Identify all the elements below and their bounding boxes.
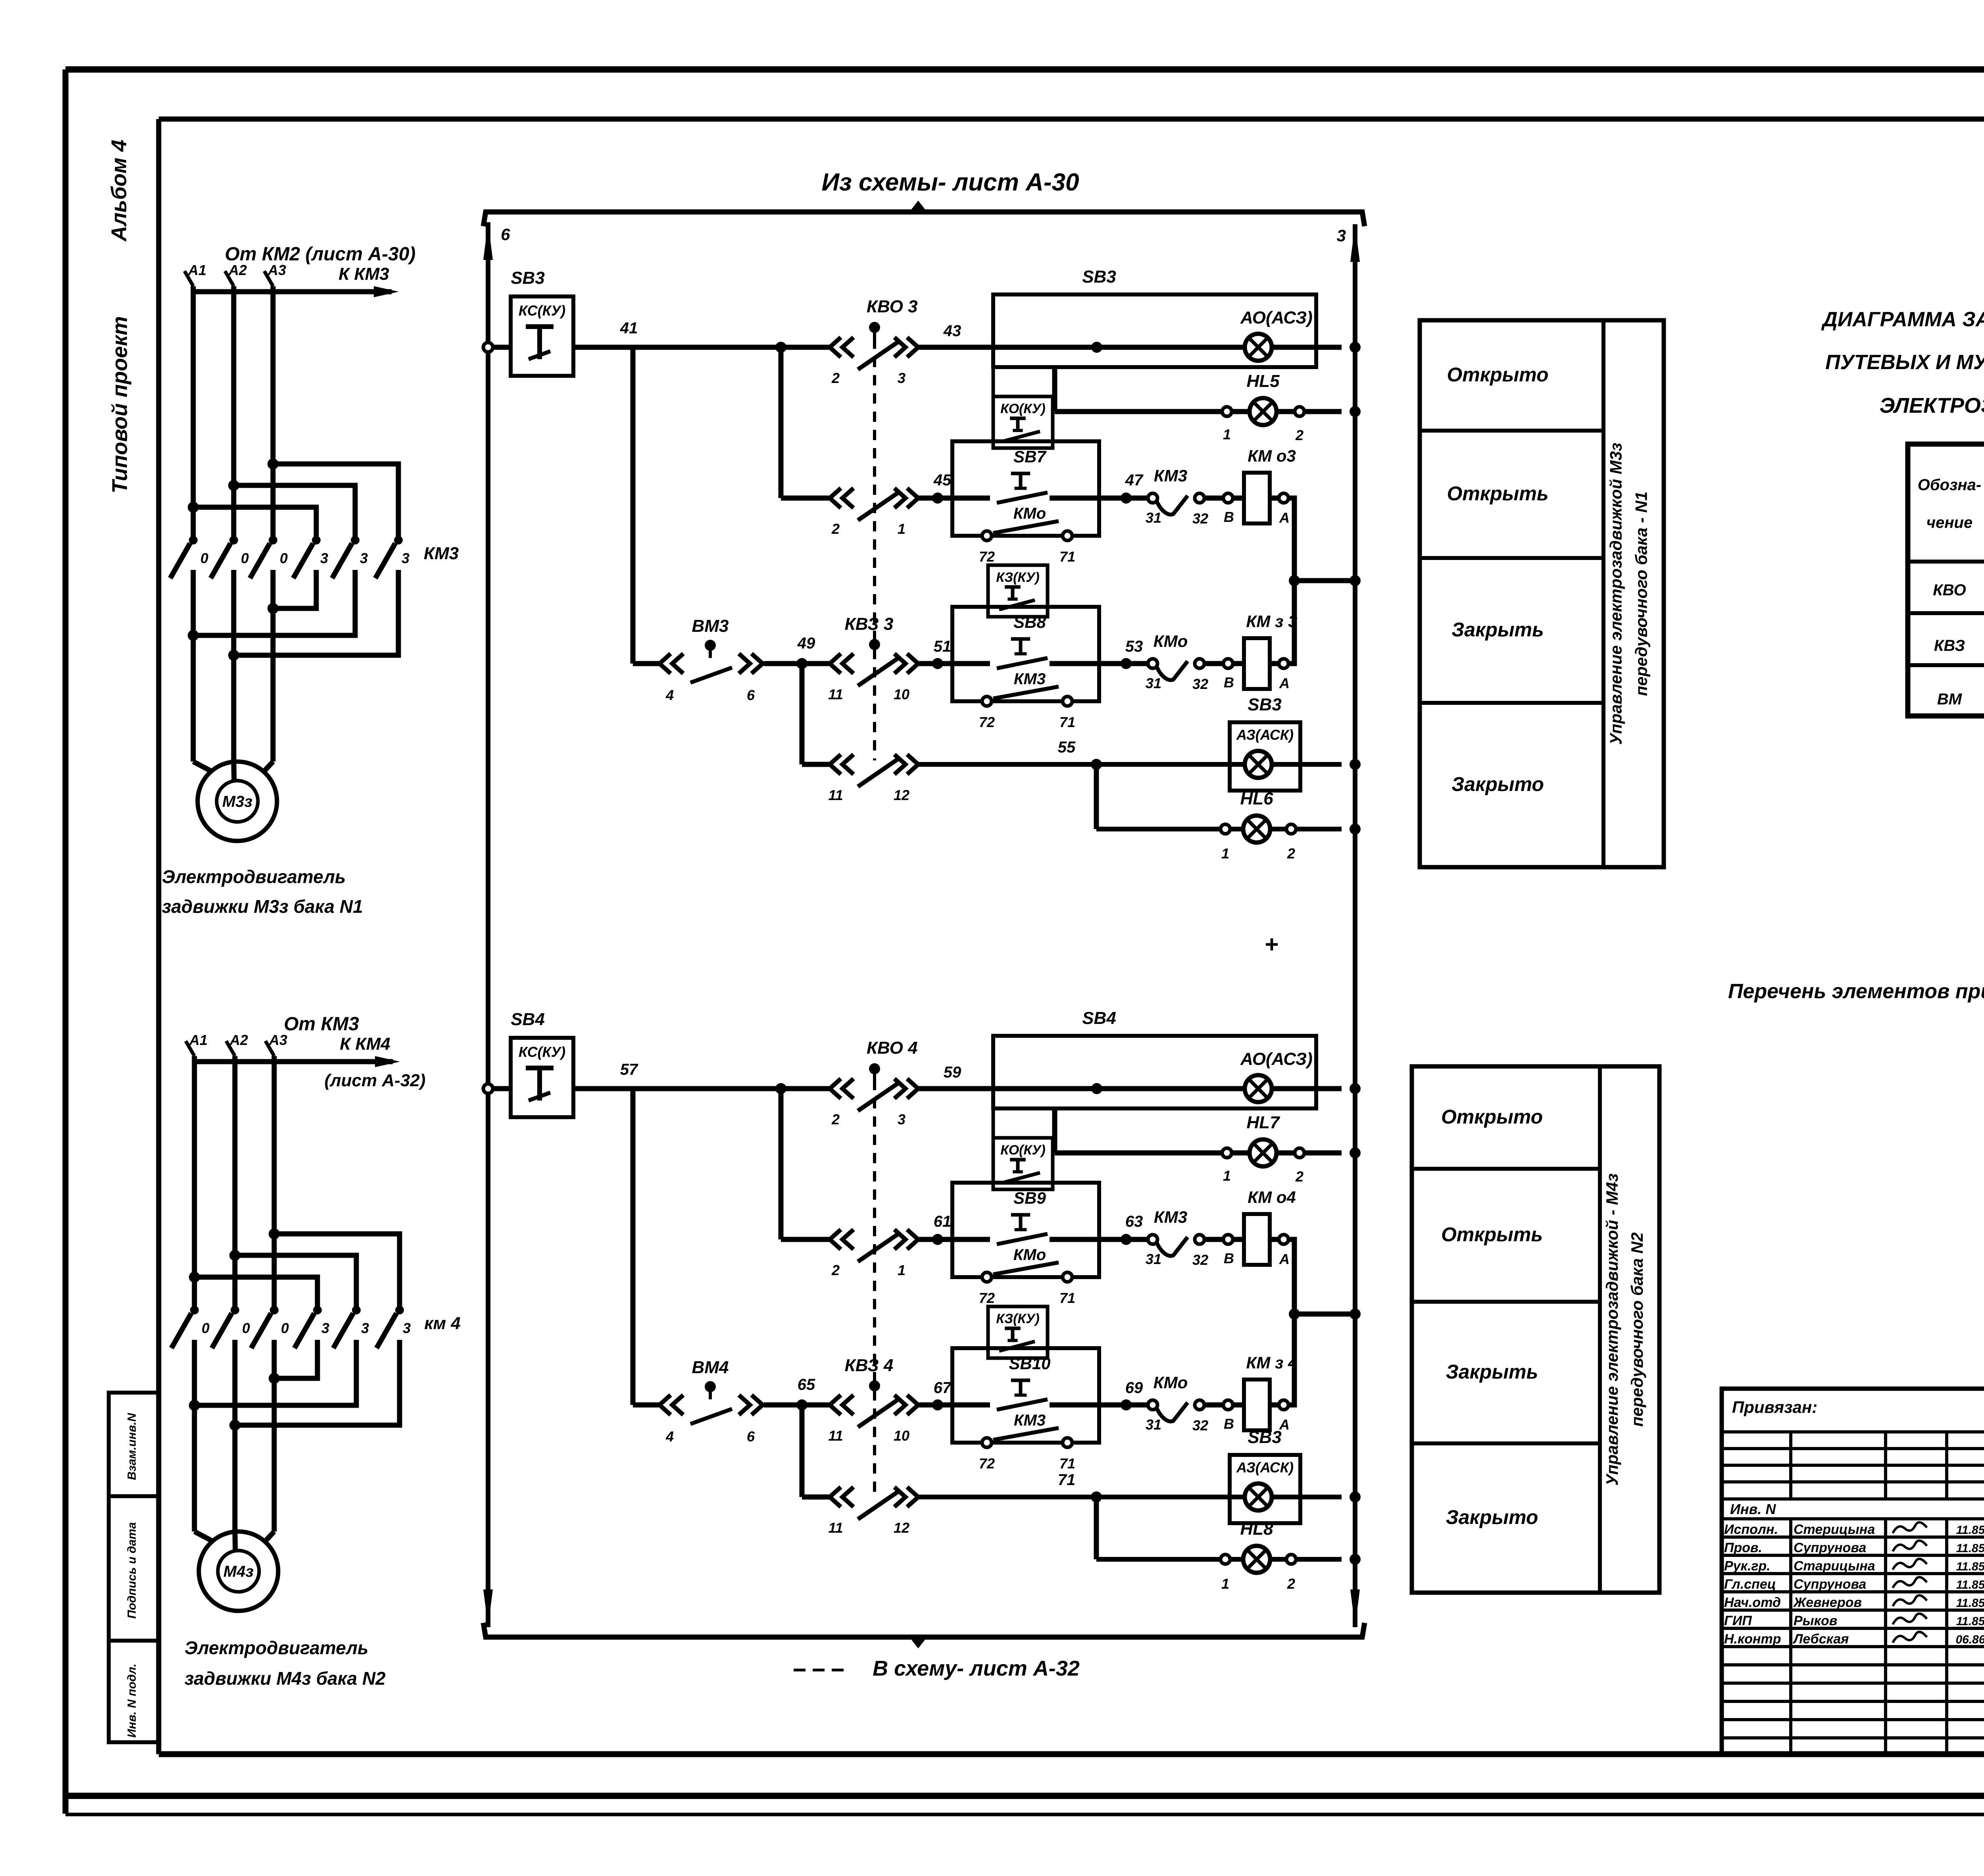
svg-text:Пров.: Пров. (1724, 1540, 1762, 1555)
svg-text:ВМ: ВМ (1937, 691, 1963, 708)
svg-text:31: 31 (1146, 510, 1161, 526)
svg-text:Открыть: Открыть (1441, 1224, 1543, 1246)
svg-text:А: А (1279, 1251, 1290, 1267)
svg-text:Закрыто: Закрыто (1451, 773, 1544, 795)
svg-text:А1: А1 (189, 1032, 208, 1048)
svg-text:11.85: 11.85 (1956, 1542, 1984, 1555)
svg-text:72: 72 (979, 714, 995, 730)
svg-text:Супрунова: Супрунова (1794, 1540, 1866, 1555)
svg-text:КМ3: КМ3 (1014, 670, 1046, 688)
svg-text:06.86: 06.86 (1955, 1633, 1984, 1646)
svg-text:2: 2 (1295, 1168, 1303, 1185)
svg-text:КО(КУ): КО(КУ) (1000, 401, 1045, 416)
svg-text:32: 32 (1192, 510, 1208, 527)
svg-text:АО(АСЗ): АО(АСЗ) (1240, 308, 1313, 327)
svg-text:Гл.спец: Гл.спец (1724, 1577, 1776, 1592)
svg-text:Альбом 4: Альбом 4 (107, 140, 131, 242)
svg-text:КВО 3: КВО 3 (867, 297, 918, 316)
svg-text:ПУТЕВЫХ И МУФТОВЫХ ВЫКЛЮЧАТ: ПУТЕВЫХ И МУФТОВЫХ ВЫКЛЮЧАТЕЛЕЙ (1825, 350, 1984, 374)
svg-text:КС(КУ): КС(КУ) (519, 302, 565, 319)
svg-text:32: 32 (1192, 676, 1208, 692)
svg-text:32: 32 (1192, 1252, 1208, 1268)
svg-text:Взам.инв.N: Взам.инв.N (125, 1412, 138, 1480)
svg-text:49: 49 (797, 635, 815, 652)
svg-text:Подпись и дата: Подпись и дата (125, 1522, 138, 1618)
svg-text:ГИП: ГИП (1724, 1613, 1752, 1628)
svg-text:Управление электрозадвижкой -: Управление электрозадвижкой - М4з (1603, 1174, 1621, 1486)
svg-text:4: 4 (665, 687, 674, 703)
svg-text:11.85: 11.85 (1956, 1524, 1984, 1537)
svg-text:61: 61 (934, 1213, 952, 1230)
svg-text:2: 2 (831, 1262, 840, 1278)
svg-text:Стерицына: Стерицына (1794, 1522, 1875, 1537)
svg-text:КМ3: КМ3 (1154, 1208, 1187, 1226)
svg-text:11: 11 (828, 1428, 843, 1444)
svg-text:Типовой проект: Типовой проект (108, 316, 132, 494)
svg-text:SB9: SB9 (1013, 1189, 1046, 1207)
svg-text:передувочного бака - N1: передувочного бака - N1 (1632, 491, 1650, 696)
svg-text:11: 11 (828, 787, 843, 803)
svg-text:КВЗ 4: КВЗ 4 (845, 1356, 894, 1375)
svg-text:Открыть: Открыть (1447, 483, 1548, 505)
svg-text:КМо: КМо (1153, 632, 1188, 650)
svg-text:65: 65 (798, 1376, 815, 1393)
svg-text:72: 72 (979, 1455, 995, 1472)
svg-text:53: 53 (1125, 638, 1143, 655)
svg-text:12: 12 (894, 1520, 909, 1536)
svg-text:К КМ4: К КМ4 (340, 1034, 390, 1054)
svg-text:3: 3 (1337, 226, 1346, 245)
svg-text:А1: А1 (188, 262, 206, 278)
svg-text:71: 71 (1059, 714, 1075, 730)
svg-text:Исполн.: Исполн. (1724, 1522, 1778, 1537)
svg-text:72: 72 (979, 1290, 995, 1306)
svg-text:43: 43 (943, 322, 961, 340)
svg-text:11: 11 (828, 686, 843, 702)
svg-text:69: 69 (1125, 1379, 1143, 1397)
svg-text:SB4: SB4 (1082, 1008, 1116, 1028)
svg-text:КМ з 3: КМ з 3 (1246, 612, 1298, 631)
svg-text:1: 1 (1223, 1168, 1231, 1184)
svg-text:71: 71 (1058, 1471, 1076, 1489)
svg-text:КМ з 4: КМ з 4 (1246, 1353, 1298, 1372)
svg-text:31: 31 (1146, 1251, 1161, 1267)
svg-text:км 4: км 4 (424, 1314, 461, 1333)
svg-text:31: 31 (1146, 1416, 1161, 1433)
svg-text:2: 2 (831, 521, 840, 537)
svg-text:SB3: SB3 (511, 268, 545, 288)
svg-text:КМо: КМо (1013, 1246, 1046, 1264)
svg-text:11: 11 (828, 1520, 843, 1536)
svg-text:SB7: SB7 (1013, 447, 1046, 466)
svg-text:SB3: SB3 (1082, 267, 1116, 287)
svg-text:КМ о4: КМ о4 (1248, 1188, 1296, 1206)
svg-text:КМ о3: КМ о3 (1248, 446, 1296, 465)
svg-text:11.85: 11.85 (1956, 1597, 1984, 1610)
svg-text:1: 1 (1221, 845, 1229, 862)
svg-text:КМ3: КМ3 (1154, 466, 1187, 485)
svg-text:63: 63 (1125, 1213, 1143, 1230)
svg-text:КО(КУ): КО(КУ) (1000, 1143, 1045, 1158)
svg-text:1: 1 (1221, 1576, 1229, 1592)
svg-text:АЗ(АСК): АЗ(АСК) (1236, 727, 1294, 743)
svg-text:КВЗ: КВЗ (1934, 637, 1965, 654)
svg-text:М3з: М3з (222, 793, 252, 810)
svg-text:HL8: HL8 (1240, 1519, 1273, 1539)
svg-text:1: 1 (1223, 426, 1231, 443)
svg-text:АЗ(АСК): АЗ(АСК) (1236, 1459, 1294, 1476)
svg-text:11.85: 11.85 (1956, 1560, 1984, 1573)
svg-text:Нач.отд: Нач.отд (1724, 1595, 1781, 1610)
svg-text:КМ3: КМ3 (1014, 1412, 1046, 1429)
svg-text:11.85: 11.85 (1956, 1578, 1984, 1591)
svg-text:В схему- лист А-32: В схему- лист А-32 (873, 1657, 1080, 1680)
svg-text:2: 2 (1295, 427, 1303, 443)
svg-text:2: 2 (831, 1111, 840, 1128)
svg-text:КМ3: КМ3 (424, 544, 459, 563)
svg-text:Рук.гр.: Рук.гр. (1724, 1559, 1771, 1574)
svg-text:11.85: 11.85 (1956, 1615, 1984, 1628)
svg-text:SB4: SB4 (511, 1010, 545, 1029)
svg-text:3: 3 (898, 370, 905, 386)
svg-text:А2: А2 (229, 1032, 248, 1048)
svg-text:задвижки М4з бака N2: задвижки М4з бака N2 (185, 1668, 386, 1689)
svg-text:47: 47 (1125, 471, 1144, 489)
svg-text:Закрыть: Закрыть (1451, 619, 1544, 641)
svg-text:67: 67 (934, 1379, 952, 1397)
svg-text:Открыто: Открыто (1447, 364, 1548, 386)
svg-text:Инв. N подл.: Инв. N подл. (125, 1664, 138, 1738)
svg-text:задвижки М3з бака N1: задвижки М3з бака N1 (162, 896, 363, 917)
svg-text:SB3: SB3 (1248, 1428, 1282, 1447)
svg-text:КВЗ 3: КВЗ 3 (845, 614, 894, 634)
svg-text:6: 6 (747, 1428, 755, 1445)
svg-text:2: 2 (1287, 1576, 1295, 1592)
svg-text:(лист А-32): (лист А-32) (325, 1071, 426, 1090)
svg-text:12: 12 (894, 787, 909, 803)
svg-text:ВМ3: ВМ3 (692, 616, 729, 636)
svg-text:71: 71 (1059, 1290, 1075, 1306)
svg-text:2: 2 (831, 370, 840, 386)
svg-text:6: 6 (501, 225, 510, 244)
svg-text:Супрунова: Супрунова (1794, 1577, 1866, 1592)
svg-text:КЗ(КУ): КЗ(КУ) (996, 570, 1039, 585)
svg-text:72: 72 (979, 548, 995, 565)
svg-text:КЗ(КУ): КЗ(КУ) (996, 1311, 1039, 1326)
svg-text:Н.контр: Н.контр (1724, 1632, 1781, 1647)
svg-text:Управление электрозадвижкой М: Управление электрозадвижкой М3з (1607, 443, 1625, 745)
svg-text:А: А (1279, 510, 1290, 526)
svg-text:В: В (1224, 674, 1234, 691)
svg-text:2: 2 (1287, 845, 1295, 862)
svg-text:1: 1 (898, 521, 905, 537)
svg-text:41: 41 (620, 319, 638, 337)
svg-text:Перечень элементов принципиа: Перечень элементов принципиальной схемы … (1728, 980, 1984, 1003)
svg-text:55: 55 (1058, 739, 1076, 756)
svg-text:ЭЛЕКТРОЗАДВИЖЕК М1з ÷ М6з: ЭЛЕКТРОЗАДВИЖЕК М1з ÷ М6з (1879, 394, 1984, 418)
svg-text:АО(АСЗ): АО(АСЗ) (1240, 1049, 1313, 1069)
svg-text:SB3: SB3 (1248, 695, 1282, 714)
svg-text:В: В (1224, 1250, 1234, 1266)
svg-text:КМо: КМо (1153, 1373, 1188, 1392)
svg-text:КС(КУ): КС(КУ) (519, 1044, 565, 1060)
svg-text:Закрыть: Закрыть (1446, 1361, 1538, 1383)
svg-text:32: 32 (1192, 1417, 1208, 1433)
svg-text:От КМ3: От КМ3 (284, 1014, 359, 1035)
svg-text:Обозна-: Обозна- (1918, 476, 1981, 494)
svg-text:4: 4 (665, 1428, 674, 1445)
svg-text:71: 71 (1059, 1455, 1075, 1472)
svg-text:От КМ2 (лист А-30): От КМ2 (лист А-30) (225, 244, 416, 265)
svg-text:Инв. N: Инв. N (1730, 1501, 1776, 1517)
svg-text:Старицына: Старицына (1794, 1559, 1875, 1574)
svg-text:51: 51 (934, 638, 952, 655)
svg-text:КВО: КВО (1933, 581, 1966, 599)
svg-text:Рыков: Рыков (1794, 1613, 1837, 1628)
svg-text:Привязан:: Привязан: (1732, 1398, 1817, 1416)
svg-text:В: В (1224, 509, 1234, 525)
svg-text:6: 6 (747, 687, 755, 703)
svg-text:ДИАГРАММА ЗАМЫКАНИЯ КОНТАКТО: ДИАГРАММА ЗАМЫКАНИЯ КОНТАКТОВ (1821, 308, 1984, 331)
svg-text:Открыто: Открыто (1441, 1106, 1543, 1128)
svg-text:45: 45 (933, 471, 952, 489)
svg-text:КВО 4: КВО 4 (867, 1038, 918, 1058)
svg-text:Лебская: Лебская (1792, 1632, 1849, 1647)
svg-text:КМо: КМо (1013, 505, 1046, 522)
svg-text:чение: чение (1926, 514, 1972, 531)
svg-text:71: 71 (1059, 548, 1075, 565)
svg-text:К КМ3: К КМ3 (338, 264, 389, 284)
svg-text:HL5: HL5 (1246, 371, 1280, 391)
svg-text:Электродвигатель: Электродвигатель (162, 866, 346, 887)
svg-text:ВМ4: ВМ4 (692, 1358, 729, 1377)
svg-text:Электродвигатель: Электродвигатель (185, 1637, 368, 1658)
svg-text:10: 10 (894, 686, 909, 702)
svg-text:+: + (1265, 931, 1278, 958)
svg-text:Закрыто: Закрыто (1446, 1506, 1538, 1528)
svg-text:HL7: HL7 (1246, 1113, 1280, 1132)
svg-text:В: В (1224, 1416, 1234, 1432)
svg-text:Из схемы- лист А-30: Из схемы- лист А-30 (822, 169, 1079, 196)
svg-text:59: 59 (944, 1064, 961, 1081)
svg-text:Жевнеров: Жевнеров (1793, 1595, 1862, 1610)
svg-text:передувочного бака N2: передувочного бака N2 (1628, 1232, 1646, 1427)
svg-text:А: А (1279, 675, 1290, 691)
svg-text:М4з: М4з (223, 1563, 254, 1580)
svg-text:57: 57 (620, 1061, 638, 1078)
svg-text:10: 10 (894, 1428, 909, 1444)
svg-text:1: 1 (898, 1262, 905, 1278)
svg-text:31: 31 (1146, 675, 1161, 691)
svg-text:HL6: HL6 (1240, 789, 1273, 808)
svg-text:3: 3 (898, 1111, 905, 1128)
